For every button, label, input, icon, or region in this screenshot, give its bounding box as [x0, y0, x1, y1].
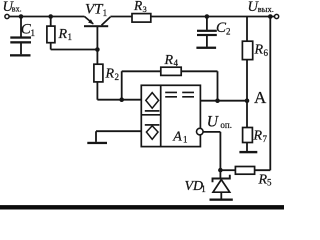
svg-text:U: U: [207, 114, 220, 131]
svg-text:7: 7: [263, 134, 268, 144]
svg-text:R: R: [254, 42, 264, 57]
svg-text:2: 2: [115, 72, 120, 82]
svg-text:A: A: [254, 88, 267, 107]
svg-text:R: R: [105, 66, 115, 81]
svg-text:4: 4: [174, 58, 179, 68]
svg-text:1: 1: [31, 28, 36, 38]
svg-text:A: A: [172, 130, 182, 145]
svg-text:R: R: [258, 173, 268, 188]
svg-text:1: 1: [103, 8, 108, 18]
svg-text:5: 5: [267, 178, 272, 188]
svg-text:R: R: [58, 27, 68, 42]
svg-text:2: 2: [226, 26, 231, 36]
svg-text:R: R: [133, 0, 143, 13]
svg-text:оп.: оп.: [220, 120, 232, 130]
svg-text:R: R: [253, 129, 263, 144]
svg-text:вх.: вх.: [12, 5, 22, 14]
svg-text:R: R: [164, 53, 174, 68]
svg-text:3: 3: [143, 4, 147, 14]
svg-text:VT: VT: [85, 2, 104, 18]
svg-text:1: 1: [183, 134, 188, 144]
svg-text:6: 6: [264, 48, 269, 58]
svg-text:вых.: вых.: [258, 4, 274, 14]
svg-text:1: 1: [201, 184, 206, 194]
svg-text:1: 1: [68, 32, 73, 42]
